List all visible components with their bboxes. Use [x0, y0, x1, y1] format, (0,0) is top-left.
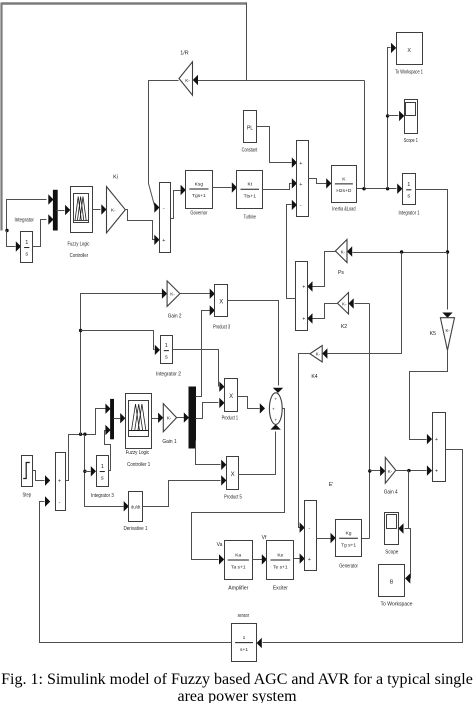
svg-text:Te s+1: Te s+1 — [273, 564, 288, 570]
svg-text:+: + — [274, 417, 277, 422]
svg-text:Inertia &Load: Inertia &Load — [332, 207, 355, 213]
svg-text:Controller 1: Controller 1 — [127, 462, 150, 468]
wire bar port2 to Product 1 — [196, 398, 225, 419]
wire Exciter to field sum — [294, 553, 305, 563]
block Amplifier — [225, 541, 253, 592]
sum S1 (AGC governor sum) — [160, 183, 171, 253]
svg-text:Integrator 3: Integrator 3 — [91, 493, 114, 499]
block sensor — [232, 613, 257, 662]
svg-text:Product 3: Product 3 — [213, 325, 230, 331]
svg-text:K-: K- — [341, 250, 346, 255]
wire Integrator 3 output to Mux — [105, 425, 111, 471]
svg-text:+: + — [299, 182, 302, 188]
wire to Integrator input — [7, 231, 22, 252]
svg-text:+: + — [302, 317, 305, 323]
wire Amplifier to Exciter — [253, 554, 268, 564]
svg-text:Gain 4: Gain 4 — [384, 490, 398, 496]
svg-text:K-: K- — [316, 352, 321, 357]
svg-text:s: s — [407, 194, 410, 200]
wire FLC to gain Ki — [93, 204, 107, 214]
gain Ki — [107, 175, 126, 233]
wire Mux to FLC1 — [114, 413, 126, 423]
gain K5 — [430, 318, 455, 351]
svg-text:sensor: sensor — [238, 613, 250, 619]
svg-text:PL: PL — [247, 126, 253, 132]
gain K4 — [310, 346, 322, 381]
svg-text:K-: K- — [167, 416, 172, 421]
wire to Scope and To Workspace — [398, 471, 408, 534]
svg-text:K2: K2 — [341, 324, 347, 330]
svg-text:X: X — [219, 299, 223, 305]
wire Pe sum to swing sum — [287, 200, 298, 299]
wire AGC sum to Governor — [171, 185, 186, 219]
svg-text:s+1: s+1 — [240, 647, 248, 653]
svg-text:B: B — [390, 580, 394, 586]
wire Ki output to AGC sum — [126, 210, 160, 246]
svg-text:1: 1 — [165, 343, 168, 349]
block To Workspace B — [379, 565, 413, 608]
wire Product 1 output to round sum — [238, 397, 266, 414]
caption — [0, 671, 474, 703]
block Inertia & Load — [332, 166, 357, 213]
mux M2 (AVR) — [111, 399, 114, 438]
svg-text:Fuzzy Logic: Fuzzy Logic — [68, 242, 90, 248]
svg-text:Product 1: Product 1 — [222, 416, 238, 422]
block Governor — [186, 171, 213, 217]
svg-text:+: + — [302, 285, 305, 291]
gain K2 — [338, 293, 349, 331]
svg-text:K-: K- — [170, 292, 175, 297]
wire error to Integrator 3 / Derivative — [83, 435, 129, 512]
svg-text:X: X — [407, 48, 411, 54]
sum S6 (round AVR control sum) — [269, 393, 282, 425]
wire K2 input from E' net — [349, 298, 370, 308]
block Scope 1 — [404, 100, 418, 145]
block Fuzzy Logic Controller 1 — [126, 394, 152, 468]
gain Gain 4 — [384, 457, 398, 495]
svg-text:Exciter: Exciter — [273, 586, 288, 592]
svg-text:Tg s+1: Tg s+1 — [341, 542, 356, 548]
wire Product 3 output to round sum — [228, 301, 284, 393]
wire sensor output to AVR sum — [40, 496, 232, 642]
block Integrator 3 — [91, 456, 114, 500]
wire Integrator 1 output down right side — [416, 190, 453, 318]
svg-text:Product 5: Product 5 — [224, 495, 242, 501]
svg-text:E': E' — [329, 482, 334, 488]
wire top feedback loop (gray) — [2, 2, 247, 5]
block To Workspace 1 — [395, 33, 423, 76]
svg-text:+: + — [58, 479, 61, 485]
wire K5 output to Vt sum — [410, 351, 448, 445]
wire bar port3 to Product 5 — [196, 441, 227, 471]
block Integrator 1 — [399, 174, 420, 217]
svg-text:Kg: Kg — [346, 531, 352, 537]
wire delta-to-K4 branch — [322, 253, 401, 359]
sum S5 (AVR error sum) — [56, 453, 66, 511]
wire frequency output net — [357, 184, 403, 194]
svg-text:Tgs+1: Tgs+1 — [192, 193, 206, 199]
demux bar D1 — [189, 387, 196, 448]
gain Gain 2 — [167, 281, 181, 320]
svg-text:Integrator: Integrator — [14, 218, 34, 224]
block Exciter — [267, 541, 294, 592]
wire Gain 2 to Product 3 — [180, 289, 215, 299]
svg-text:K-: K- — [185, 78, 190, 83]
wire FLC1 to Gain 1 — [152, 413, 164, 423]
svg-text:Amplifier: Amplifier — [228, 586, 248, 592]
wire Generator output to E' net — [362, 538, 370, 540]
wire E' to Gain 4 — [370, 466, 386, 476]
svg-text:1/R: 1/R — [180, 51, 188, 57]
svg-text:X: X — [229, 394, 233, 400]
svg-text:Fuzzy Logic: Fuzzy Logic — [126, 450, 150, 456]
svg-text:Tts+1: Tts+1 — [244, 193, 257, 199]
wire Gain 4 output to Vt sum — [396, 465, 433, 475]
svg-text:Step: Step — [23, 493, 32, 499]
gain 1/R — [179, 51, 193, 96]
svg-text:+: + — [435, 469, 438, 475]
svg-text:Va: Va — [217, 542, 223, 548]
sum S7 (field sum) — [305, 501, 317, 571]
svg-text:Ki: Ki — [113, 175, 118, 181]
wire Gain 1 to demux bar — [177, 412, 190, 422]
wire Step to AVR sum — [33, 471, 51, 486]
svg-text:Ta s+1: Ta s+1 — [231, 564, 246, 570]
mux M1 (AGC) — [53, 190, 57, 230]
block Turbine — [237, 171, 263, 221]
svg-text:Gain 1: Gain 1 — [162, 439, 176, 445]
wire Turbine to swing sum — [263, 178, 298, 189]
sum S2 (swing equation sum) — [297, 141, 309, 217]
svg-text:du/dt: du/dt — [131, 505, 141, 510]
block Product 3 — [213, 285, 230, 331]
wire K4 output to field sum — [299, 354, 310, 533]
svg-text:Derivative 1: Derivative 1 — [124, 526, 148, 532]
block Product 5 — [224, 457, 242, 501]
block Step — [22, 456, 33, 499]
svg-text:To Workspace 1: To Workspace 1 — [395, 70, 423, 76]
svg-text:+: + — [162, 238, 165, 244]
wire round sum output to Amplifier — [192, 409, 285, 565]
block Fuzzy Logic Controller U1 — [68, 187, 93, 260]
wire PL to swing sum — [257, 127, 298, 168]
block Derivative 1 — [124, 492, 148, 533]
wire delta-to-Ps branch — [347, 246, 448, 256]
svg-text:Ke: Ke — [277, 552, 283, 558]
svg-text:Integrator 1: Integrator 1 — [399, 211, 420, 217]
block Product 1 — [222, 379, 238, 422]
node Vf label — [262, 535, 267, 541]
svg-text:H2s+D: H2s+D — [336, 188, 352, 194]
svg-text:1: 1 — [25, 240, 28, 246]
wire K2 output to Pe sum — [307, 304, 337, 324]
gain Gain 1 — [162, 404, 176, 445]
svg-text:Controller: Controller — [70, 253, 89, 259]
wire Ps output to Pe sum — [307, 252, 335, 292]
wire up to scope/workspace — [386, 43, 396, 189]
svg-text:To Workspace: To Workspace — [381, 602, 413, 608]
svg-text:s: s — [165, 354, 168, 360]
wire Mux to Fuzzy Logic Controller — [57, 205, 71, 215]
wire Integrator 2 output to Product 1 — [173, 350, 225, 392]
svg-text:1: 1 — [101, 464, 104, 470]
node E' label — [329, 482, 334, 488]
svg-text:Scope: Scope — [385, 550, 398, 556]
svg-text:K4: K4 — [311, 374, 317, 380]
svg-text:K-: K- — [111, 208, 116, 214]
block Scope — [385, 513, 399, 556]
wire Product 5 output to round sum — [239, 424, 281, 474]
wire E' net vertical — [368, 304, 371, 539]
svg-text:-: - — [300, 203, 302, 209]
wire swing sum to Inertia&Load — [309, 178, 332, 188]
wire AVR error net — [66, 404, 111, 481]
svg-text:Governor: Governor — [190, 211, 207, 217]
wire Integrator output to Mux — [33, 214, 54, 246]
svg-text:Turbine: Turbine — [244, 215, 257, 221]
svg-text:K-: K- — [446, 328, 451, 333]
svg-text:+: + — [272, 407, 275, 412]
svg-text:1: 1 — [243, 635, 246, 641]
gain Ps — [335, 240, 347, 277]
svg-text:-: - — [163, 206, 165, 212]
svg-text:1: 1 — [407, 182, 410, 188]
sum S4 (Vt sum) — [433, 413, 446, 482]
svg-text:-: - — [308, 526, 310, 532]
wire left feedback (gray) — [0, 3, 2, 231]
block Integrator 2 — [156, 336, 181, 378]
svg-text:Integrator 2: Integrator 2 — [156, 372, 181, 378]
svg-text:+: + — [299, 161, 302, 167]
block Constant PL — [242, 111, 258, 154]
wire field sum to Generator — [317, 533, 336, 543]
svg-text:s: s — [25, 251, 28, 257]
wire bar port1 to Product 3 — [196, 305, 215, 396]
svg-text:+: + — [435, 437, 438, 443]
svg-text:Kt: Kt — [247, 182, 252, 188]
wire drop from top loop to 1/R net — [246, 3, 248, 81]
wire 1/R output down to AGC sum — [149, 81, 179, 213]
block Integrator — [14, 218, 34, 263]
svg-text:X: X — [231, 472, 235, 478]
svg-text:Constant: Constant — [242, 148, 258, 154]
svg-text:Ps: Ps — [338, 270, 344, 276]
svg-text:Ka: Ka — [235, 552, 241, 558]
node AGC feedback junction — [5, 194, 53, 232]
svg-text:+: + — [308, 557, 311, 563]
svg-text:-: - — [59, 500, 61, 506]
sum S3 (electrical power sum) — [296, 262, 308, 331]
svg-text:Generator: Generator — [339, 564, 358, 570]
svg-text:s: s — [101, 475, 104, 481]
wire Derivative 1 to Product 5 — [143, 475, 227, 506]
block Generator — [336, 520, 362, 570]
svg-text:K5: K5 — [430, 331, 436, 337]
wire Governor to Turbine — [213, 182, 238, 192]
svg-text:Scope 1: Scope 1 — [404, 138, 418, 144]
wire error to Gain 2 / Integrator 2 — [79, 288, 167, 434]
svg-text:K-: K- — [388, 469, 393, 474]
wire frequency net y=80 to 1/R gain — [193, 75, 365, 85]
node Va label — [217, 542, 223, 548]
svg-text:Ksg: Ksg — [195, 181, 204, 187]
svg-text:+: + — [274, 397, 277, 402]
wire up to 1/R net — [364, 81, 366, 189]
svg-text:Gain 2: Gain 2 — [168, 314, 182, 320]
wire Vt to sensor — [257, 450, 463, 649]
wire to Scope 1 — [388, 111, 405, 121]
svg-text:K-: K- — [342, 302, 347, 307]
